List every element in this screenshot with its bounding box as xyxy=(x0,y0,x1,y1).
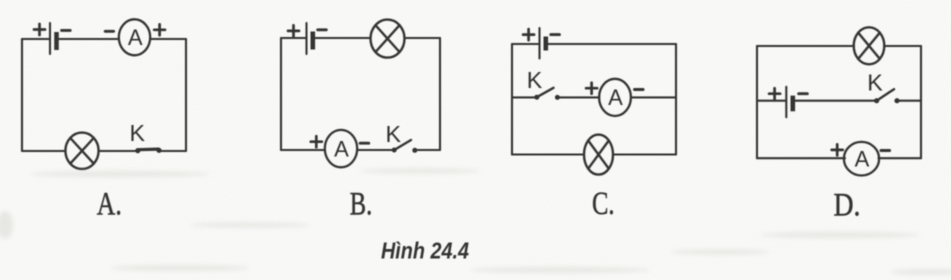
wire C middle-left to switch xyxy=(512,96,535,98)
wire C left side xyxy=(511,44,513,155)
label D. xyxy=(834,188,861,224)
wire B ammeter to switch xyxy=(357,149,392,151)
switch K (open) circuit B xyxy=(386,121,418,153)
ammeter A1 circuit D xyxy=(832,142,890,176)
battery B xyxy=(288,23,326,54)
wire A bottom-right to switch xyxy=(159,150,186,152)
wire B lamp to top-right corner xyxy=(405,37,441,39)
ammeter A1 circuit B xyxy=(311,130,369,167)
switch K (open) circuit D xyxy=(867,70,899,104)
wire D left side xyxy=(756,46,758,158)
wire B top-left to battery xyxy=(281,37,306,39)
wire C right side xyxy=(675,44,677,155)
ammeter A1 xyxy=(105,19,165,55)
wire C ammeter to middle-right xyxy=(631,96,676,98)
wire C top-left to battery xyxy=(512,43,539,45)
wire A ammeter to top-right corner xyxy=(151,38,187,40)
wire A switch to lamp xyxy=(99,150,137,152)
battery A xyxy=(34,23,70,54)
wire B battery to lamp xyxy=(315,37,371,39)
wire D middle-left to battery xyxy=(757,100,785,102)
lamp L1 circuit B xyxy=(371,20,405,58)
wire D top-left to lamp xyxy=(757,45,854,47)
wire B bottom-left to ammeter xyxy=(281,149,325,151)
switch K (open) circuit C xyxy=(527,67,560,100)
lamp L1 circuit A xyxy=(65,133,98,169)
wire C lamp to bottom-right corner xyxy=(613,153,676,155)
wire A left side xyxy=(21,39,23,151)
wire A battery to ammeter xyxy=(59,38,119,40)
lamp L1 circuit C xyxy=(584,135,613,175)
wire D bottom-left to ammeter xyxy=(757,157,845,159)
battery D xyxy=(769,87,807,117)
wire D right side xyxy=(920,46,922,158)
caption Hinh 24.4 xyxy=(381,238,469,264)
wire C switch to ammeter xyxy=(559,96,599,98)
wire C bottom-left to lamp xyxy=(512,153,584,155)
wire B left side xyxy=(280,38,282,150)
wire D ammeter to bottom-right corner xyxy=(879,157,922,159)
lamp L1 circuit D xyxy=(854,27,885,64)
wire D switch to middle-right xyxy=(899,100,921,102)
wire C battery to top-right corner xyxy=(548,43,676,45)
wire A right side xyxy=(185,39,187,151)
wire A lamp to bottom-left corner xyxy=(22,150,65,152)
switch K (closed) circuit A xyxy=(130,120,162,153)
wire D lamp to top-right corner xyxy=(884,45,921,47)
wire B right side xyxy=(439,38,441,150)
wire A top-left to battery xyxy=(22,38,49,40)
label B. xyxy=(350,187,373,223)
wire B switch to bottom-right corner xyxy=(417,149,441,151)
battery C xyxy=(523,28,559,59)
label C. xyxy=(592,186,615,222)
ammeter A1 circuit C xyxy=(586,79,643,116)
wire D battery to switch xyxy=(795,100,875,102)
label A. xyxy=(97,187,122,223)
